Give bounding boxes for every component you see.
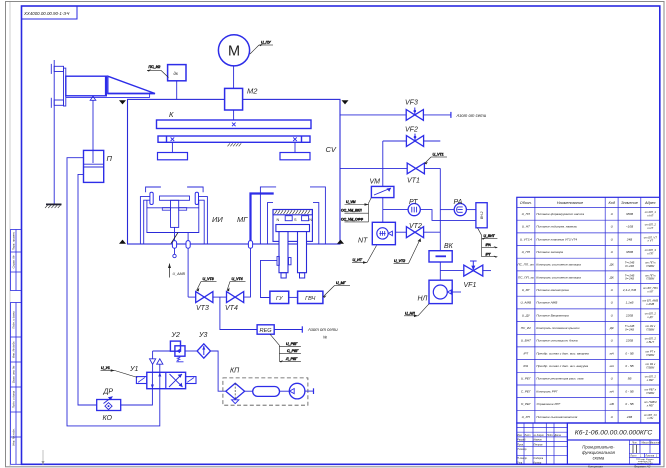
svg-text:от БП_2: от БП_2: [645, 375, 657, 379]
label U_НТ leader: [352, 246, 377, 264]
svg-text:ВН-2: ВН-2: [480, 211, 484, 219]
svg-text:к РЕГ: к РЕГ: [647, 378, 655, 382]
svg-text:Козлов: Козлов: [534, 461, 542, 464]
label U_АМВ arrow: [168, 264, 185, 278]
svg-text:U_АМВ: U_АМВ: [520, 301, 531, 305]
svg-text:U_ПУ: U_ПУ: [261, 40, 271, 44]
svg-text:к ВНТ: к ВНТ: [647, 340, 655, 344]
svg-text:REG: REG: [260, 328, 273, 334]
svg-text:U_VT4: U_VT4: [232, 277, 243, 281]
wire REG to nitrogen port: [274, 326, 302, 332]
svg-text:ДР: ДР: [103, 389, 114, 396]
wire ГУ-ГВЧ: [289, 296, 298, 298]
svg-text:Питание магнетрона: Питание магнетрона: [536, 288, 569, 292]
svg-text:к РЕГ: к РЕГ: [647, 404, 655, 408]
wire NT to VT2: [395, 231, 406, 233]
svg-text:от БП_2: от БП_2: [645, 223, 657, 227]
svg-text:Питание АМВ: Питание АМВ: [536, 301, 557, 305]
svg-text:от РА к: от РА к: [645, 362, 656, 366]
svg-text:от ПП к: от ПП к: [645, 273, 656, 277]
svg-text:U_МГ: U_МГ: [522, 288, 531, 292]
svg-text:0=-24В: 0=-24В: [625, 277, 634, 281]
svg-text:Управление РРГ: Управление РРГ: [536, 402, 560, 406]
svg-text:Лит.: Лит.: [631, 441, 638, 444]
wire У2-У3: [185, 350, 197, 352]
regulator REG: [257, 325, 274, 334]
svg-text:М2: М2: [247, 87, 258, 96]
left margin cells group B: [11, 303, 22, 465]
svg-text:ПС_ПП_от: ПС_ПП_от: [517, 263, 534, 267]
svg-text:ДК: ДК: [609, 263, 614, 267]
svg-text:к НЛ: к НЛ: [647, 213, 653, 217]
svg-text:мА: мА: [610, 389, 614, 393]
svg-text:Т=+24В: Т=+24В: [625, 324, 635, 328]
svg-text:функциональная: функциональная: [582, 450, 616, 455]
svg-text:ДК: ДК: [609, 326, 614, 330]
label U_НЛ leader: [404, 304, 429, 317]
svg-text:ІРА: ІРА: [523, 364, 528, 368]
svg-text:РТ: РТ: [409, 199, 418, 206]
svg-text:VT1: VT1: [407, 178, 420, 185]
svg-text:НЛ: НЛ: [418, 296, 428, 303]
svg-text:~10В: ~10В: [626, 225, 633, 229]
svg-text:Утв.: Утв.: [517, 461, 523, 464]
motor M1: [218, 35, 249, 66]
press legs: [158, 142, 311, 160]
svg-text:П: П: [107, 154, 113, 163]
wire motor to M2: [233, 66, 235, 89]
svg-text:VT3: VT3: [196, 305, 209, 312]
svg-text:U_АМВ: U_АМВ: [173, 272, 186, 276]
svg-text:U_МГ: U_МГ: [336, 281, 347, 285]
svg-text:Иванов: Иванов: [534, 439, 543, 442]
svg-text:U_НЛ: U_НЛ: [522, 212, 531, 216]
wire У3 to КП: [211, 351, 226, 391]
node chamber bottom-right flange: [337, 240, 344, 244]
valve VT4: [225, 292, 244, 312]
compressor unit КП dashed box: [223, 368, 314, 406]
wire junction to REG: [220, 297, 257, 329]
svg-text:Преобр. сигнал с дат. низ. вак: Преобр. сигнал с дат. низ. вакуума: [536, 364, 588, 368]
svg-text:мВ: мВ: [610, 402, 614, 406]
filter У3: [197, 332, 210, 358]
svg-text:U_РЕГ: U_РЕГ: [521, 377, 531, 381]
svg-text:К6-1-06.00.00.00.000КГС: К6-1-06.00.00.00.000КГС: [575, 430, 653, 437]
horn support triangle: [90, 96, 96, 100]
directional valve У1: [129, 366, 196, 389]
svg-text:ДК: ДК: [609, 275, 614, 279]
svg-text:Перв. примен.: Перв. примен.: [12, 231, 16, 250]
wire КО to У1: [121, 389, 153, 405]
svg-text:ВК: ВК: [444, 243, 454, 250]
magnetron МГ assembly: [251, 187, 326, 278]
pump N2 (НЛ): [418, 280, 462, 303]
svg-text:К: К: [169, 110, 174, 119]
svg-text:от БП_У1: от БП_У1: [644, 413, 657, 417]
svg-text:Дата: Дата: [554, 434, 562, 437]
svg-text:Подп. и дата: Подп. и дата: [12, 390, 16, 408]
КП receiver: [245, 390, 253, 392]
block ГВЧ: [298, 291, 323, 303]
node chamber top-right flange: [342, 100, 349, 104]
svg-text:24В: 24В: [626, 415, 633, 419]
gauge NT: [358, 222, 395, 244]
МГ waveguide thick wire: [251, 194, 274, 242]
svg-text:от БП_АМВ: от БП_АМВ: [643, 299, 659, 303]
svg-text:к АМВ: к АМВ: [646, 302, 654, 306]
svg-text:VF3: VF3: [405, 100, 418, 107]
svg-text:Питание клапанов VT3,VT4: Питание клапанов VT3,VT4: [536, 237, 577, 241]
svg-text:к ДУ: к ДУ: [647, 315, 653, 319]
У1 vent triangles: [150, 351, 163, 372]
svg-text:0=-24В: 0=-24В: [625, 327, 634, 331]
svg-text:схема: схема: [593, 456, 605, 461]
svg-text:к VT: к VT: [648, 239, 654, 243]
svg-text:Питание форвакуумного насоса: Питание форвакуумного насоса: [536, 212, 584, 216]
svg-text:Т=+24В: Т=+24В: [625, 261, 635, 265]
svg-text:ПЭВМ: ПЭВМ: [646, 391, 655, 395]
REG signal leaders: [270, 334, 301, 362]
svg-text:Контроль РРГ: Контроль РРГ: [536, 389, 558, 393]
svg-text:U_ПП: U_ПП: [522, 250, 531, 254]
svg-text:Сидоров: Сидоров: [534, 457, 544, 460]
svg-text:от И2 к: от И2 к: [645, 324, 656, 328]
svg-text:U_VT3: U_VT3: [203, 277, 214, 281]
svg-text:от ПЭВМ: от ПЭВМ: [644, 400, 657, 404]
МГ magnet poles: [285, 216, 292, 221]
PT jog wire to ВН-2: [420, 210, 476, 221]
svg-text:0=-24В: 0=-24В: [625, 264, 634, 268]
svg-text:от БП_2: от БП_2: [645, 337, 657, 341]
svg-text:Наименование: Наименование: [557, 201, 583, 205]
МГ legs: [279, 232, 288, 273]
label U_VT3 leader: [197, 277, 217, 292]
svg-text:Изм: Изм: [517, 434, 522, 437]
press hatch: [228, 143, 242, 146]
label U_У1 leader: [101, 366, 138, 377]
svg-text:U_ВНТ: U_ВНТ: [484, 234, 496, 238]
svg-text:от БП_1: от БП_1: [645, 210, 657, 214]
svg-text:Взам. инв. №: Взам. инв. №: [12, 366, 16, 383]
svg-text:С_РЕГ: С_РЕГ: [287, 349, 299, 353]
svg-text:Питание ионизацион. блока: Питание ионизацион. блока: [536, 339, 577, 343]
svg-text:0 - 5В: 0 - 5В: [625, 364, 633, 368]
svg-text:к НТ: к НТ: [647, 226, 653, 230]
svg-text:ПС_ПП_за: ПС_ПП_за: [518, 275, 534, 279]
svg-text:U_РН: U_РН: [522, 415, 531, 419]
svg-text:U_VM: U_VM: [346, 200, 356, 204]
svg-text:220В: 220В: [625, 339, 633, 343]
wall: [51, 60, 66, 204]
svg-text:от БП_ГВЧ: от БП_ГВЧ: [643, 286, 658, 290]
svg-text:У3: У3: [198, 332, 207, 339]
svg-text:РА: РА: [454, 199, 463, 206]
svg-text:ГУ: ГУ: [276, 296, 283, 302]
svg-text:Петров: Петров: [534, 443, 544, 446]
svg-text:О_РЕГ: О_РЕГ: [521, 402, 531, 406]
press lower bar: [158, 136, 310, 142]
svg-text:Питание Вакууметра: Питание Вакууметра: [536, 313, 569, 317]
pressure regulator У2: [153, 332, 185, 362]
vacuum chamber CV: [128, 99, 341, 244]
svg-text:Справ. №: Справ. №: [12, 256, 16, 269]
svg-text:Азот от сети: Азот от сети: [307, 327, 338, 332]
sensor дк box: [168, 65, 186, 100]
svg-text:Питание пьезонатекателя: Питание пьезонатекателя: [536, 415, 577, 419]
МГ plate: [276, 225, 310, 232]
svg-text:U_ВНТ: U_ВНТ: [521, 339, 532, 343]
МГ body: [273, 210, 312, 242]
svg-text:Преобр. сигнал с дат. выс. вак: Преобр. сигнал с дат. выс. вакуума: [536, 351, 589, 355]
svg-text:U_НТ: U_НТ: [522, 225, 531, 229]
svg-text:Инв. № дубл.: Инв. № дубл.: [12, 341, 16, 358]
svg-text:от РЕГ к: от РЕГ к: [645, 387, 657, 391]
svg-text:ОС_VM_ВКЛ: ОС_VM_ВКЛ: [341, 209, 362, 213]
label U_ПУ leader: [250, 40, 273, 54]
ИИ left outlet with break contact: [171, 227, 178, 257]
svg-text:КП: КП: [230, 368, 240, 375]
svg-text:ПЭВМ: ПЭВМ: [646, 353, 655, 357]
svg-text:VT4: VT4: [225, 305, 238, 312]
svg-text:от ПП к: от ПП к: [645, 261, 656, 265]
svg-text:380В: 380В: [626, 212, 633, 216]
vacuum valve ВК: [429, 243, 454, 262]
svg-text:МГ: МГ: [237, 215, 248, 224]
VM signal leaders: [341, 198, 371, 222]
svg-text:380В: 380В: [626, 250, 633, 254]
svg-text:24В: 24В: [626, 237, 633, 241]
svg-text:Адрес: Адрес: [644, 201, 656, 205]
svg-text:Питание регулятора расх. газа: Питание регулятора расх. газа: [536, 377, 583, 381]
svg-text:Т.контр.: Т.контр.: [517, 448, 527, 451]
svg-text:к РН: к РН: [647, 416, 653, 420]
gauge VM: [370, 141, 394, 198]
ИИ vessel: [147, 200, 199, 233]
svg-text:0 - 5В: 0 - 5В: [625, 402, 633, 406]
svg-text:ХХ4000.00.00.90-1-ЭЧ: ХХ4000.00.00.90-1-ЭЧ: [23, 11, 69, 16]
svg-text:Контроль состояния затвора: Контроль состояния затвора: [536, 275, 581, 279]
svg-text:У2: У2: [171, 332, 180, 339]
svg-text:КО: КО: [103, 415, 113, 422]
main right riser: [439, 168, 441, 250]
МГ feedthrough on bus: [248, 241, 252, 249]
svg-text:ПС_И2: ПС_И2: [149, 65, 161, 69]
svg-text:U_ДУ: U_ДУ: [522, 313, 531, 317]
svg-text:Контроль состояния затвора: Контроль состояния затвора: [536, 263, 581, 267]
svg-text:U_VT3,4: U_VT3,4: [520, 237, 532, 241]
svg-text:Контроль положения крышки: Контроль положения крышки: [536, 326, 579, 330]
wire to VF1: [440, 270, 464, 272]
svg-text:Масштаб: Масштаб: [649, 441, 661, 444]
svg-text:Пров.: Пров.: [517, 443, 524, 446]
wire МГ tab to ГУ: [261, 260, 278, 297]
svg-text:5В: 5В: [628, 377, 632, 381]
svg-text:Обозн.: Обозн.: [520, 201, 532, 205]
svg-text:Т=+24В: Т=+24В: [625, 273, 635, 277]
svg-text:2,4-2,7кВ: 2,4-2,7кВ: [622, 288, 636, 292]
svg-text:ПЭВМ: ПЭВМ: [646, 264, 655, 268]
КП pump: [280, 390, 290, 392]
svg-text:Разраб.: Разраб.: [517, 439, 526, 442]
coupling M2: [225, 87, 259, 111]
svg-text:0 - 5В: 0 - 5В: [625, 389, 633, 393]
wire VM to NT: [382, 198, 384, 223]
fold mark bottom-left: [42, 450, 45, 465]
svg-text:к МГ: к МГ: [647, 289, 653, 293]
svg-text:Питание подогрев. навески: Питание подогрев. навески: [536, 225, 577, 229]
svg-text:Питание затвора: Питание затвора: [536, 250, 563, 254]
left margin cells group A: [11, 230, 22, 291]
svg-text:от БП_VT: от БП_VT: [644, 235, 657, 239]
bellows П: [84, 150, 113, 182]
ИИ plunger: [160, 196, 190, 227]
svg-text:Подп. и дата: Подп. и дата: [12, 311, 16, 329]
svg-text:Значение: Значение: [621, 201, 638, 205]
svg-text:VF2: VF2: [405, 127, 418, 134]
svg-text:ПС_И2: ПС_И2: [521, 326, 531, 330]
signals table: [517, 197, 660, 423]
valve VF2: [383, 127, 441, 147]
svg-text:Принципиально-: Принципиально-: [582, 445, 615, 450]
svg-text:Код: Код: [608, 201, 614, 205]
label U_VT1 leader: [425, 153, 448, 165]
svg-text:Лист: Лист: [523, 434, 530, 437]
svg-text:У1: У1: [129, 366, 138, 373]
svg-text:С_РЕГ: С_РЕГ: [521, 389, 531, 393]
svg-text:от БП_3: от БП_3: [645, 248, 657, 252]
svg-text:ІРА: ІРА: [486, 243, 492, 247]
converter ВН-2: [476, 203, 487, 228]
block ГУ: [270, 291, 289, 303]
gauge PT: [383, 199, 421, 216]
press K crossbar: [157, 110, 312, 129]
wire M2 to press: [233, 110, 235, 120]
label U_МГ leader: [323, 281, 350, 298]
svg-text:VT2: VT2: [409, 223, 422, 230]
svg-text:Масса: Масса: [641, 441, 649, 444]
throttle ДР / check valve КО: [97, 389, 121, 423]
svg-text:U_НЛ: U_НЛ: [405, 311, 415, 315]
gauge PA: [440, 199, 476, 216]
svg-text:Копировал: Копировал: [588, 465, 603, 468]
svg-text:U_РЕГ: U_РЕГ: [286, 342, 298, 346]
МГ brackets: [260, 187, 325, 244]
node chamber top-left flange: [119, 100, 126, 104]
svg-text:ОС_VM_ОФФ: ОС_VM_ОФФ: [341, 217, 363, 221]
svg-text:N: N: [277, 218, 280, 222]
svg-text:0 - 5В: 0 - 5В: [625, 351, 633, 355]
svg-text:NT: NT: [358, 238, 368, 245]
svg-text:CV: CV: [326, 145, 337, 154]
svg-text:N: N: [309, 218, 312, 222]
svg-text:от БП_2: от БП_2: [645, 311, 657, 315]
svg-text:ИИ: ИИ: [212, 215, 223, 224]
valve VT1: [340, 163, 440, 185]
svg-text:Л_РЕГ: Л_РЕГ: [285, 357, 298, 361]
wire A П to У1 bottom: [67, 158, 160, 426]
svg-text:VF1: VF1: [464, 282, 477, 289]
svg-text:мА: мА: [610, 351, 614, 355]
label ПС_И2 leader: [147, 65, 169, 77]
svg-text:1,1кВ: 1,1кВ: [626, 301, 634, 305]
svg-text:к ПП: к ПП: [647, 251, 653, 255]
svg-text:VM: VM: [370, 179, 381, 186]
svg-text:Инв. № подл.: Инв. № подл.: [12, 428, 16, 446]
node chamber bottom-left flange: [119, 240, 126, 244]
svg-text:Азот от сети: Азот от сети: [456, 113, 487, 118]
svg-text:мА: мА: [610, 364, 614, 368]
label U_VT4 leader: [227, 277, 246, 291]
svg-text:от РТ к: от РТ к: [645, 349, 656, 353]
svg-text:ПЭВМ: ПЭВМ: [646, 277, 655, 281]
svg-text:Н.контр.: Н.контр.: [517, 457, 527, 460]
valve VF1: [464, 261, 492, 289]
svg-text:U_VT1: U_VT1: [433, 153, 444, 157]
title block: [517, 423, 661, 465]
svg-text:U_VT2: U_VT2: [394, 259, 405, 263]
svg-text:220В: 220В: [625, 313, 633, 317]
wire B П to ДР: [78, 174, 97, 405]
ИИ bushings: [150, 192, 153, 204]
valve VT2: [406, 223, 440, 238]
valve VT3: [188, 292, 213, 312]
svg-text:Формат А2: Формат А2: [634, 465, 651, 468]
wire ВК to N2: [439, 262, 441, 280]
valve VF3: [340, 100, 451, 121]
svg-text:№: №: [323, 335, 328, 340]
svg-text:U_НТ: U_НТ: [353, 258, 363, 262]
wire horn to П: [92, 100, 94, 163]
svg-text:М: М: [228, 44, 240, 60]
svg-text:ПЭВМ: ПЭВМ: [646, 327, 655, 331]
svg-text:U_У1: U_У1: [101, 366, 110, 370]
КП filter diamond: [226, 383, 245, 399]
svg-text:№ докум.: № докум.: [534, 434, 545, 437]
wire VT4 to chamber riser: [244, 248, 251, 297]
svg-text:ГВЧ: ГВЧ: [305, 296, 315, 302]
svg-text:ПЭВМ: ПЭВМ: [646, 366, 655, 370]
ion source ИИ frame: [140, 187, 207, 244]
ВН-2 signal leaders: [478, 228, 498, 258]
horn feeder: [66, 76, 155, 97]
ground under wall: [45, 204, 62, 208]
ИИ right outlet to VT3: [186, 233, 190, 298]
label U_VT2 leader: [394, 239, 422, 264]
svg-text:Подп.: Подп.: [547, 434, 554, 437]
wire VT3-VT4: [213, 296, 227, 298]
top-left code stamp: [22, 6, 78, 19]
